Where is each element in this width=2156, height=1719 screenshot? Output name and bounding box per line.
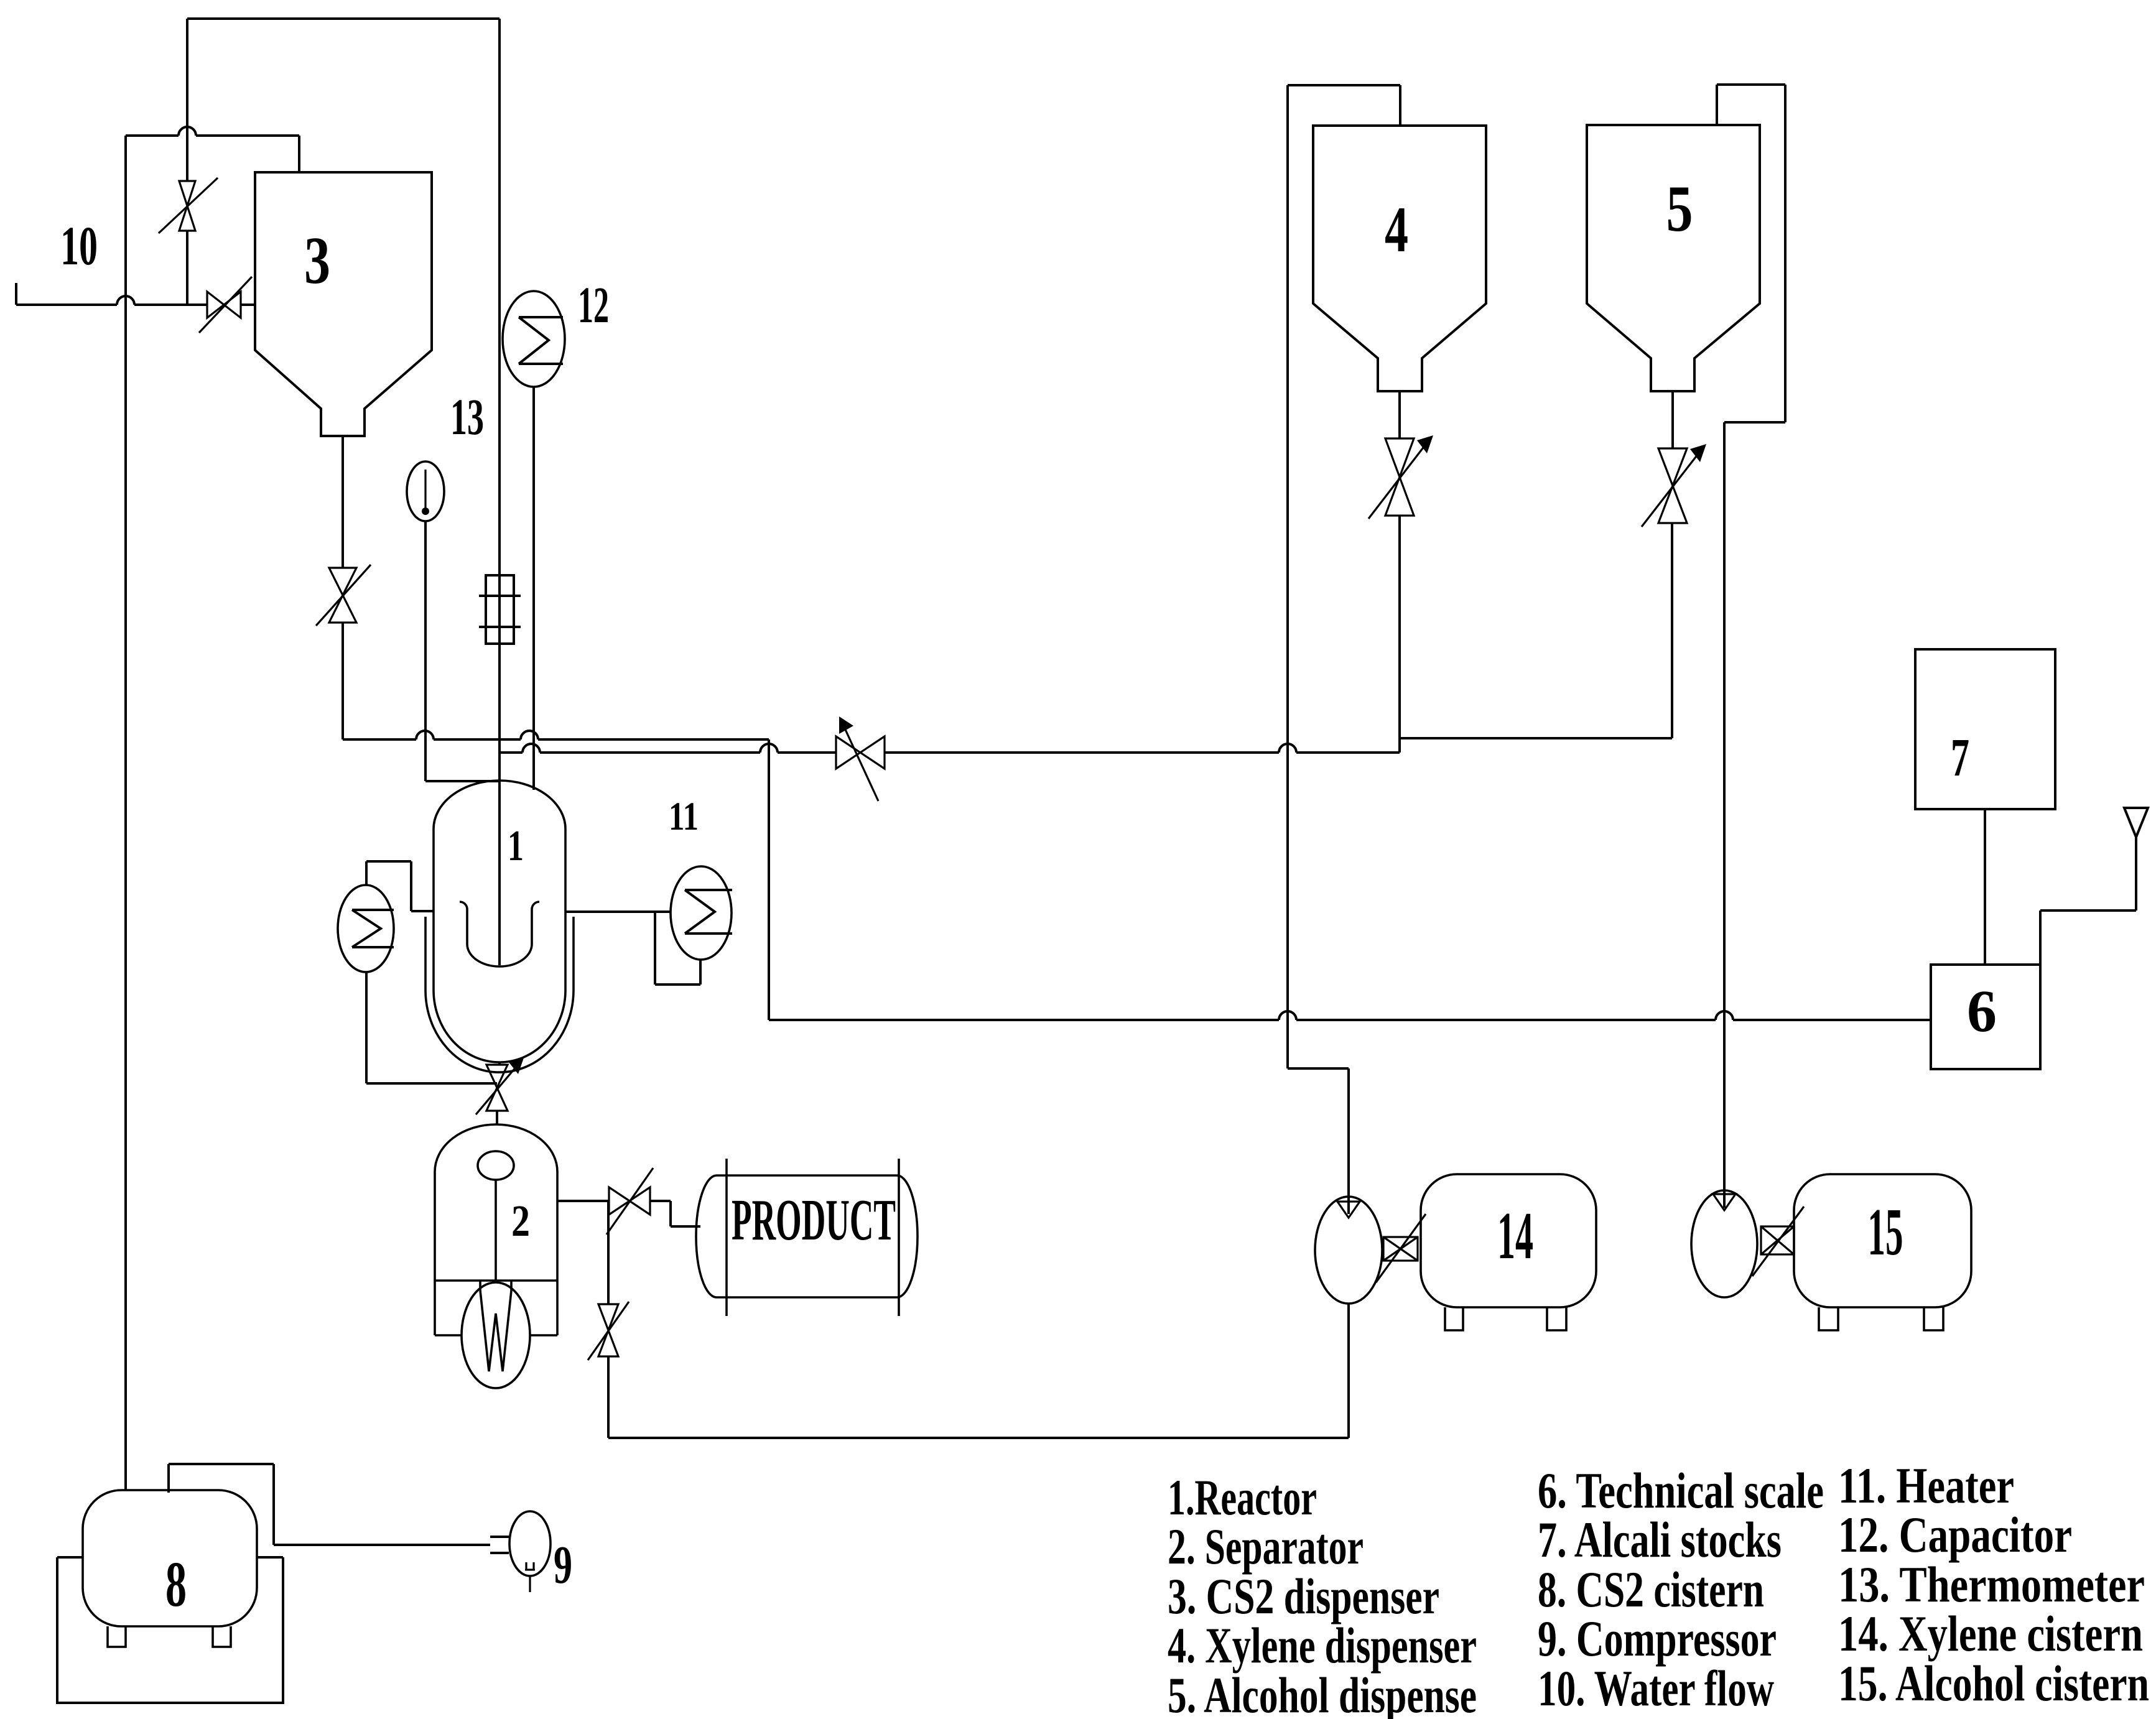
svg-text:2: 2	[511, 1196, 530, 1246]
svg-text:3: 3	[304, 224, 330, 298]
svg-text:7. Alcali stocks: 7. Alcali stocks	[1538, 1511, 1782, 1568]
svg-text:PRODUCT: PRODUCT	[732, 1188, 896, 1253]
svg-text:8: 8	[165, 1549, 187, 1620]
svg-text:5. Alcohol dispense: 5. Alcohol dispense	[1168, 1667, 1477, 1719]
svg-text:11. Heater: 11. Heater	[1838, 1457, 2014, 1514]
svg-text:7: 7	[1951, 727, 1969, 787]
svg-text:14. Xylene cistern: 14. Xylene cistern	[1838, 1605, 2143, 1662]
svg-text:9. Compressor: 9. Compressor	[1538, 1610, 1777, 1667]
svg-text:10. Water flow: 10. Water flow	[1538, 1660, 1774, 1717]
svg-text:12. Capacitor: 12. Capacitor	[1838, 1506, 2072, 1563]
svg-text:4. Xylene dispenser: 4. Xylene dispenser	[1168, 1617, 1477, 1674]
svg-text:1: 1	[508, 822, 524, 870]
svg-text:1.Reactor: 1.Reactor	[1168, 1469, 1317, 1526]
svg-text:13: 13	[450, 388, 484, 445]
svg-text:12: 12	[578, 276, 609, 333]
svg-text:4: 4	[1385, 193, 1408, 266]
svg-text:13. Thermometer: 13. Thermometer	[1838, 1556, 2145, 1613]
svg-text:5: 5	[1666, 172, 1693, 245]
svg-text:10: 10	[60, 216, 98, 277]
svg-text:14: 14	[1497, 1199, 1533, 1273]
svg-text:3. CS2 dispenser: 3. CS2 dispenser	[1168, 1568, 1439, 1624]
svg-text:15. Alcohol cistern: 15. Alcohol cistern	[1838, 1655, 2149, 1712]
svg-text:15: 15	[1868, 1195, 1903, 1269]
svg-text:2. Separator: 2. Separator	[1168, 1518, 1364, 1575]
svg-text:6: 6	[1967, 978, 1997, 1044]
svg-text:9: 9	[554, 1534, 572, 1595]
svg-text:11: 11	[669, 794, 699, 839]
svg-text:6. Technical scale: 6. Technical scale	[1538, 1462, 1824, 1519]
svg-text:8. CS2 cistern: 8. CS2 cistern	[1538, 1561, 1764, 1618]
